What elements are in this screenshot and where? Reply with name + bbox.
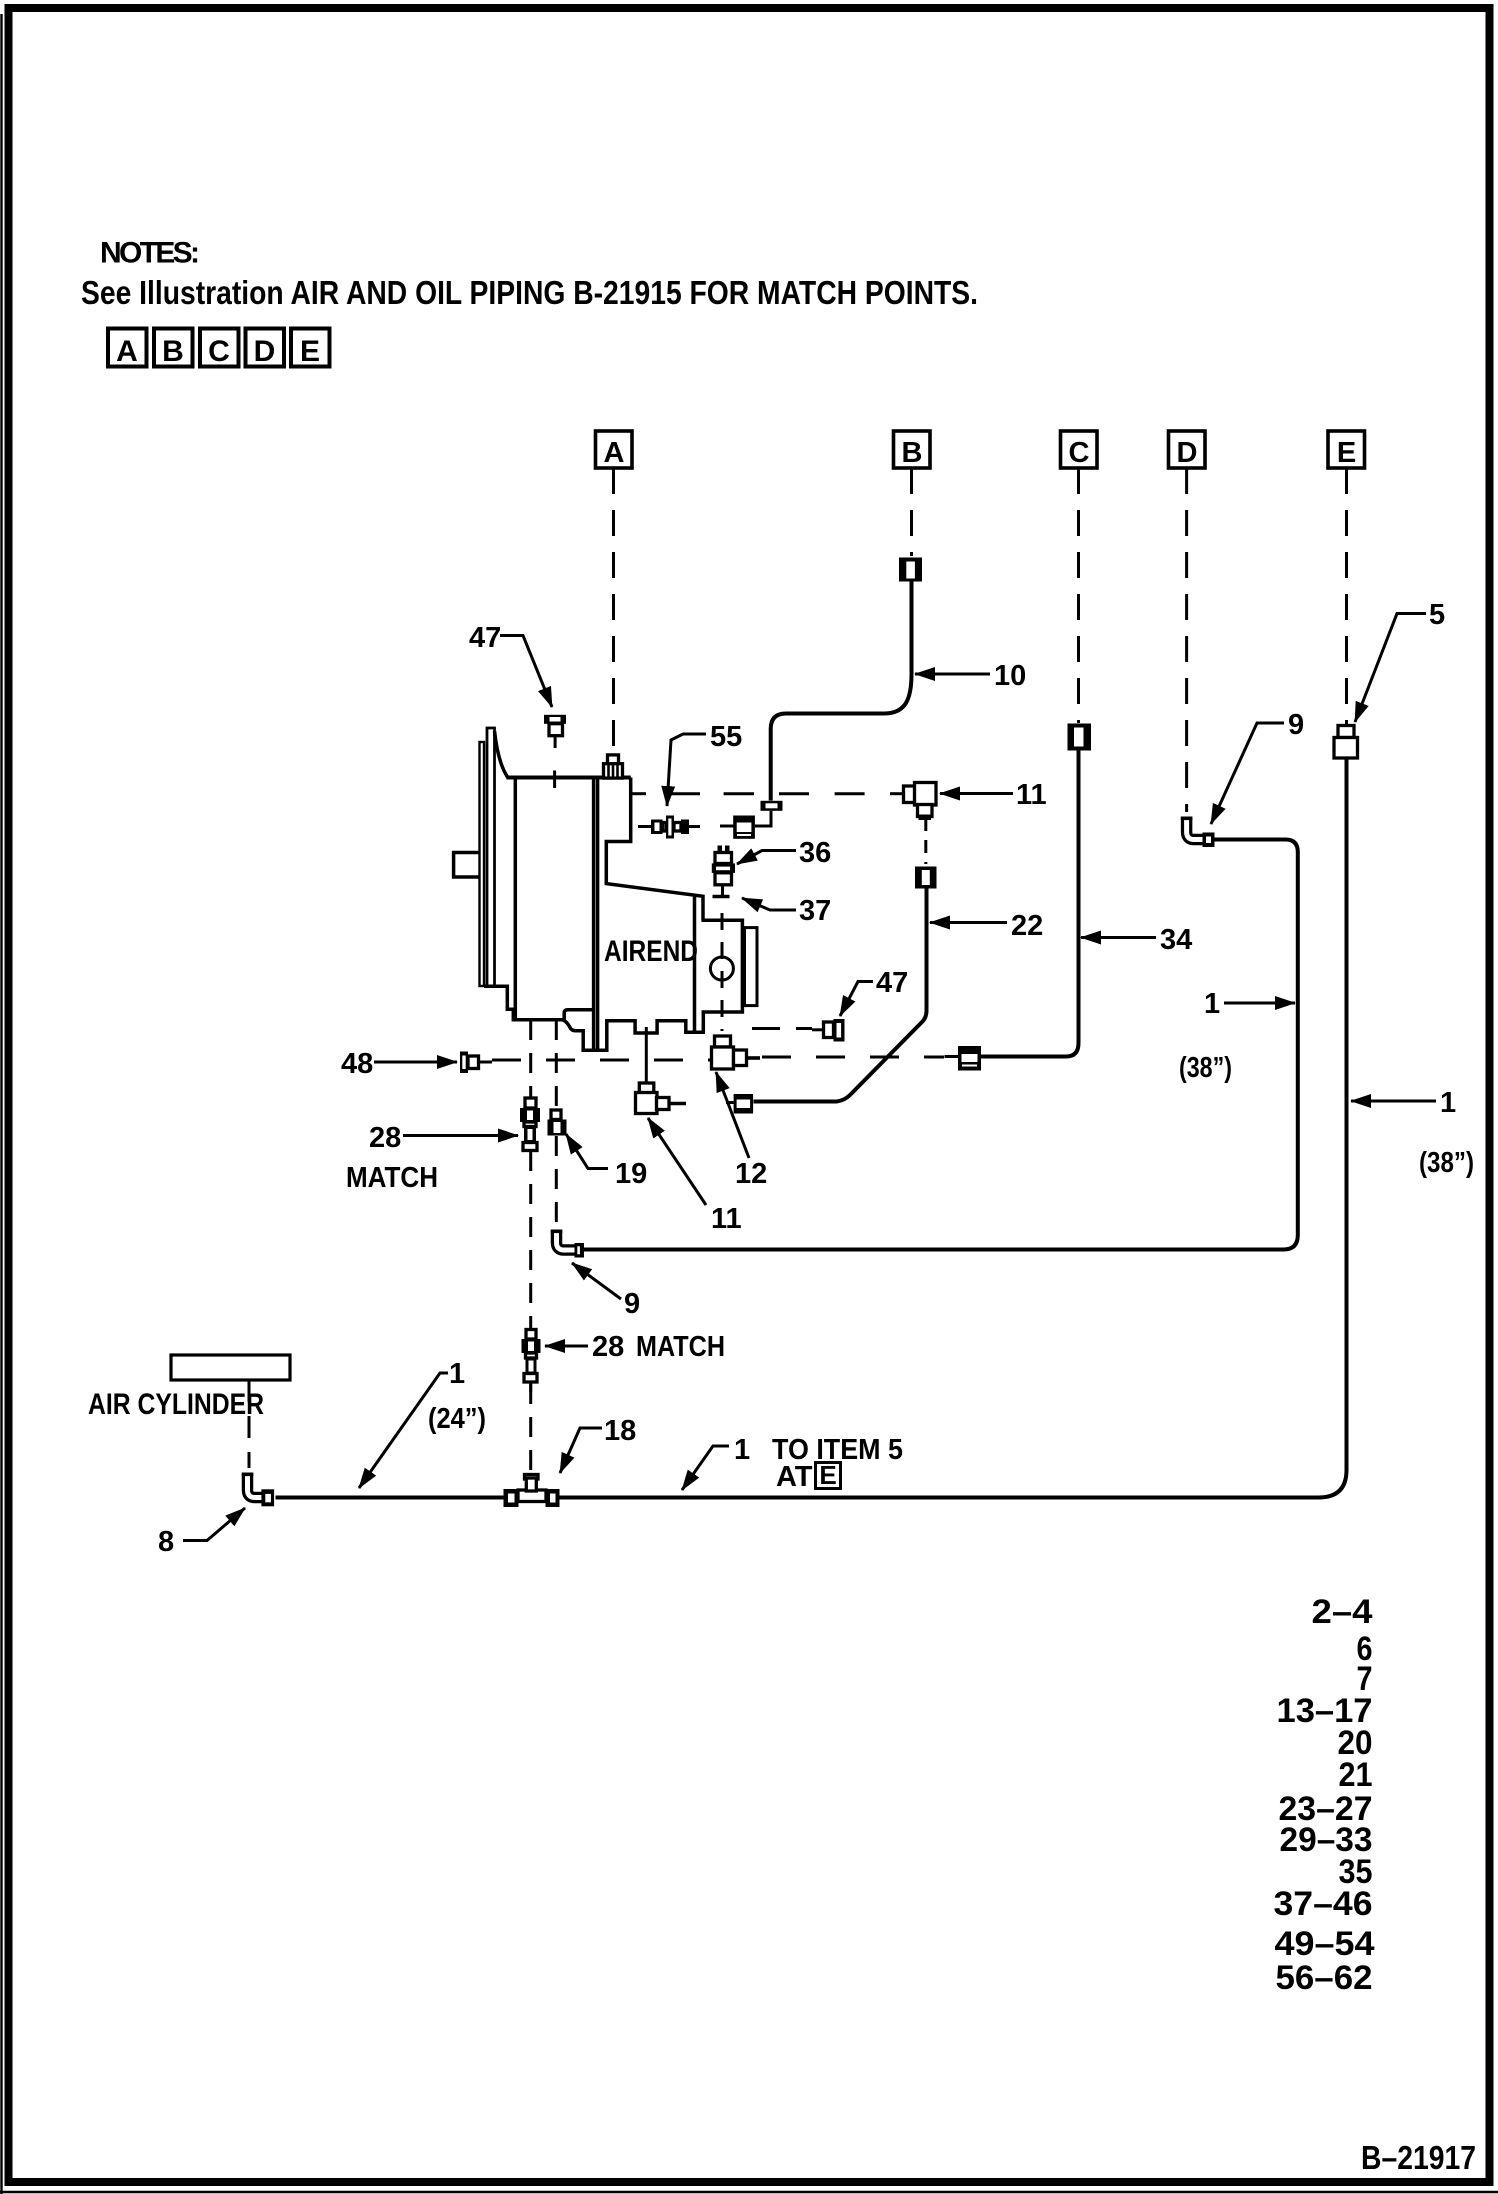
svg-text:55: 55	[710, 721, 742, 753]
label 12	[716, 1072, 767, 1190]
label 37	[742, 895, 831, 927]
AIR CYLINDER box	[171, 1355, 290, 1380]
svg-text:C: C	[1069, 437, 1090, 469]
match point legend boxes A B C D E	[108, 329, 330, 369]
svg-text:2–4: 2–4	[1312, 1593, 1373, 1631]
svg-text:1: 1	[1440, 1087, 1456, 1119]
svg-text:A: A	[604, 437, 625, 469]
node D box	[1169, 431, 1206, 469]
label 47 (top)	[469, 622, 552, 707]
label 18	[560, 1415, 636, 1473]
machine centerline dash x554	[553, 771, 556, 789]
machine top edge	[507, 776, 631, 780]
svg-text:36: 36	[799, 837, 831, 869]
inline fitting 19	[548, 1110, 567, 1136]
svg-text:37–46: 37–46	[1274, 1885, 1373, 1923]
svg-text:C: C	[208, 335, 230, 368]
union fitting top of hose 10	[899, 558, 922, 582]
mid section right vertical	[693, 895, 697, 1032]
svg-text:48: 48	[341, 1048, 373, 1080]
svg-text:47: 47	[469, 622, 501, 654]
AIREND machine outline	[454, 728, 757, 1051]
svg-text:(38”): (38”)	[1419, 1147, 1474, 1179]
svg-text:MATCH: MATCH	[346, 1162, 438, 1194]
plug fitting 48	[460, 1052, 492, 1074]
flange plate 1	[480, 742, 485, 986]
svg-text:5: 5	[1429, 599, 1445, 631]
dashed centerline x556 below machine	[555, 1020, 558, 1109]
washer 37	[713, 895, 730, 899]
label 9 (top)	[1211, 709, 1304, 824]
svg-text:See Illustration AIR AND OIL P: See Illustration AIR AND OIL PIPING B-21…	[81, 274, 978, 311]
svg-text:28: 28	[369, 1122, 401, 1154]
svg-text:D: D	[254, 335, 276, 368]
svg-text:18: 18	[604, 1415, 636, 1447]
horizontal dashed centerline y1059 (48 to 12)	[492, 1059, 711, 1062]
label 47 (lower)	[840, 967, 908, 1016]
label 19	[566, 1134, 647, 1190]
union fitting end of hose 22	[726, 1094, 753, 1114]
node E box	[1328, 431, 1365, 469]
svg-text:E: E	[819, 1460, 836, 1490]
label 1 (38in E hose)	[1351, 1087, 1474, 1179]
label 55	[667, 721, 742, 806]
svg-text:B: B	[902, 437, 923, 469]
internal body step	[564, 1010, 595, 1020]
label 1 (38in D hose)	[1179, 988, 1295, 1084]
hose 10 (B line to union)	[771, 582, 912, 801]
left shaft tab	[454, 853, 480, 878]
dashed centerline from D	[1185, 468, 1188, 812]
svg-text:B–21917: B–21917	[1361, 2139, 1476, 2176]
bottom outline with steps	[484, 986, 703, 1050]
hose 22	[754, 889, 927, 1102]
right flange	[745, 928, 758, 1006]
tee fitting 18	[504, 1475, 560, 1508]
dashed centerline from C	[1077, 468, 1080, 723]
elbow fitting 12	[712, 1036, 761, 1069]
dashed centerline from B	[910, 468, 913, 556]
svg-text:1: 1	[449, 1358, 465, 1390]
svg-text:22: 22	[1011, 910, 1043, 942]
svg-text:E: E	[1337, 437, 1356, 469]
svg-text:1: 1	[1204, 988, 1220, 1020]
svg-text:47: 47	[876, 967, 908, 999]
node C box	[1061, 431, 1098, 469]
svg-text:E: E	[300, 335, 320, 368]
svg-text:56–62: 56–62	[1276, 1959, 1373, 1997]
svg-text:8: 8	[158, 1526, 174, 1558]
item number list	[1274, 1593, 1375, 1997]
node A box	[596, 431, 633, 469]
dashed centerline from E	[1345, 468, 1348, 726]
label 34	[1081, 924, 1192, 956]
horizontal dashed centerline y794	[631, 792, 903, 795]
label 11 (lower)	[648, 1118, 742, 1235]
union fitting on hose 22	[915, 867, 937, 889]
label 9 (lower)	[572, 1263, 640, 1320]
label 48	[341, 1048, 457, 1080]
svg-text:1: 1	[734, 1434, 750, 1466]
plug fitting 36	[712, 846, 735, 897]
svg-text:11: 11	[1016, 779, 1047, 811]
label 1 (24in)	[359, 1358, 486, 1488]
body double vertical	[592, 778, 596, 1051]
svg-text:9: 9	[1288, 709, 1304, 741]
svg-text:9: 9	[624, 1288, 640, 1320]
label 8	[158, 1508, 245, 1558]
breather cap on machine top	[608, 755, 619, 764]
svg-text:21: 21	[1339, 1756, 1373, 1794]
svg-text:MATCH: MATCH	[636, 1331, 725, 1363]
tee fitting 11 (on B centerline)	[904, 783, 937, 821]
svg-text:NOTES:: NOTES:	[100, 237, 200, 270]
svg-text:D: D	[1177, 437, 1198, 469]
pipe 10 end cap	[761, 801, 783, 811]
label 11 (top)	[940, 779, 1047, 811]
hose 1 (38in) from elbow 9 down and left	[584, 840, 1298, 1250]
inline fitting 28 (lower, match)	[522, 1330, 541, 1393]
dashed stem below tee 11	[924, 818, 927, 864]
inline fitting 55	[638, 816, 700, 839]
svg-text:AIR CYLINDER: AIR CYLINDER	[88, 1388, 264, 1421]
union fitting below pipe 10	[720, 811, 771, 839]
svg-text:A: A	[116, 335, 138, 368]
circle centerline dashes	[721, 913, 724, 1031]
label 28 (upper)	[346, 1122, 518, 1194]
svg-text:11: 11	[711, 1203, 742, 1235]
right upper edge and step	[606, 778, 703, 921]
main body left edge	[514, 778, 518, 1020]
label 5	[1355, 599, 1445, 722]
elbow 9 (on D centerline)	[1181, 817, 1215, 848]
svg-text:34: 34	[1160, 924, 1192, 956]
hose 1 (38in) E line down	[1345, 758, 1349, 1472]
label 36	[737, 837, 831, 869]
elbow 9 (lower)	[551, 1230, 584, 1258]
hose 1 (24in) bottom run	[276, 1470, 1347, 1498]
svg-text:12: 12	[735, 1158, 767, 1190]
right lower section	[702, 920, 743, 1012]
dashed centerline to 47 (lower)	[752, 1027, 812, 1030]
elbow 8	[242, 1473, 274, 1507]
svg-text:(24”): (24”)	[428, 1403, 486, 1435]
svg-text:28: 28	[592, 1331, 624, 1363]
dashed centerline from A	[612, 468, 615, 754]
svg-text:19: 19	[615, 1158, 647, 1190]
svg-text:B: B	[162, 335, 184, 368]
label 10	[915, 660, 1026, 692]
label 22	[930, 910, 1043, 942]
svg-text:AT: AT	[776, 1461, 813, 1493]
elbow fitting 11 (lower)	[636, 1027, 687, 1114]
label 28 MATCH (lower)	[545, 1331, 725, 1363]
flange plate 2	[487, 728, 495, 986]
port circle	[710, 957, 733, 980]
horizontal dashed centerline y1057 (12 to C)	[762, 1056, 944, 1059]
svg-text:49–54: 49–54	[1275, 1925, 1375, 1963]
svg-text:AIREND: AIREND	[604, 935, 698, 968]
dashed line below air cylinder	[248, 1380, 251, 1468]
union fitting on pipe C horizontal	[945, 1046, 982, 1071]
svg-text:10: 10	[994, 660, 1026, 692]
pipe C: union, down, corner, left to union	[1068, 724, 1092, 751]
svg-text:37: 37	[799, 895, 831, 927]
plug fitting 5 (on E centerline)	[1334, 726, 1358, 759]
top-left curve	[495, 731, 508, 778]
svg-text:(38”): (38”)	[1179, 1052, 1232, 1084]
inline fitting 28 (upper)	[520, 1098, 540, 1151]
plug fitting 47 (lower)	[812, 1019, 845, 1042]
label 1 TO ITEM 5 AT E	[682, 1434, 903, 1493]
dashed centerline x530 below machine	[529, 1020, 532, 1097]
plug fitting 47 (top)	[544, 715, 566, 748]
node B box	[894, 431, 931, 469]
